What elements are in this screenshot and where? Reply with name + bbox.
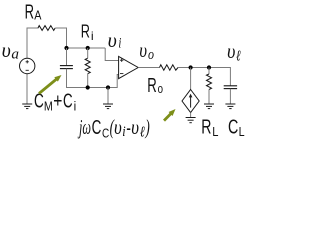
svg-text:): ) [145,115,150,139]
label vo [139,38,154,63]
wire Ri top lead [87,48,89,58]
node A junction dot (cap top) [64,46,68,50]
svg-text:o: o [158,81,163,96]
resistor Ri [85,58,90,73]
ground (under CL) [225,104,235,109]
wire output node (to CL corner) [178,68,230,86]
wire down to node vi [66,28,68,49]
label vl [227,39,241,65]
node C junction dot (Ri bottom) [86,85,90,89]
svg-text:C: C [102,125,109,140]
capacitor CL [224,86,237,89]
node D junction dot (ground tap) [106,85,110,89]
wire ground stub [107,88,109,105]
label CL [228,117,245,140]
svg-text:υ: υ [131,115,139,139]
wire step down to op-amp + input [105,48,119,61]
svg-text:L: L [239,124,245,139]
svg-text:υ: υ [108,28,117,52]
svg-text:A: A [34,8,41,23]
wire dep source bottom lead [190,113,192,118]
wire cap top lead [66,48,68,65]
green arrow (CM+Ci pointer) [39,75,62,94]
wire op-amp output [138,67,159,69]
bottom node wire [67,75,120,88]
svg-text:i: i [122,124,125,140]
node F junction dot (RL) [207,65,211,69]
svg-text:υ: υ [2,38,11,62]
svg-text:a: a [11,47,19,63]
svg-text:i: i [91,29,94,43]
svg-text:M: M [44,99,53,114]
wire RL top lead [208,68,210,75]
wire CL bottom lead [229,89,231,104]
ground (under RL) [204,104,214,109]
svg-text:R: R [147,75,157,97]
svg-text:C: C [34,90,44,112]
svg-text:i: i [74,99,77,114]
label va [2,38,19,63]
resistor Ro [160,65,179,70]
dependent current source jwCC [182,90,199,113]
svg-text:o: o [148,47,154,63]
svg-text:jω: jω [77,115,91,139]
ground (bottom middle) [103,104,113,109]
wire top left (to RA) [27,27,39,29]
label RL [201,117,218,140]
node vi wire (horizontal) [67,47,106,49]
svg-text:υ: υ [227,39,235,63]
node B junction dot (Ri top) [86,46,90,50]
svg-text:L: L [212,124,218,139]
svg-text:R: R [201,117,211,139]
wire dep source top lead [190,68,192,90]
svg-text:+: + [53,90,62,112]
label jwCC(vi-vl) [77,115,150,141]
label RA [25,1,42,23]
label Ro [147,75,163,97]
wire Ri bottom lead [87,74,89,88]
wire left column bottom (va source to ground) [26,74,28,105]
wire left column top (va source to RA) [26,28,28,59]
node E junction dot (dep source) [189,65,193,69]
svg-text:R: R [81,22,90,42]
ground (under dep source) [186,118,196,123]
svg-text:υ: υ [139,38,147,62]
green arrow (jwCC pointer) [164,109,176,121]
svg-text:ℓ: ℓ [236,49,241,65]
wire cap bottom lead [66,69,68,88]
ground (under va) [22,104,32,109]
voltage source va [20,58,35,73]
capacitor CM+Ci [60,66,73,69]
label Ri [81,22,94,44]
label vi [108,28,122,52]
op-amp U1 [119,56,139,78]
wire top right (RA to node) [55,27,66,29]
svg-text:R: R [25,1,34,23]
svg-text:ℓ: ℓ [140,125,145,141]
svg-text:C: C [228,117,238,139]
resistor RL [207,74,212,90]
resistor RA [38,26,55,31]
wire RL bottom lead [208,90,210,105]
label CM+Ci [34,90,76,113]
svg-text:i: i [118,36,121,52]
svg-text:C: C [92,117,102,139]
svg-text:υ: υ [114,115,122,139]
svg-text:C: C [63,90,73,112]
